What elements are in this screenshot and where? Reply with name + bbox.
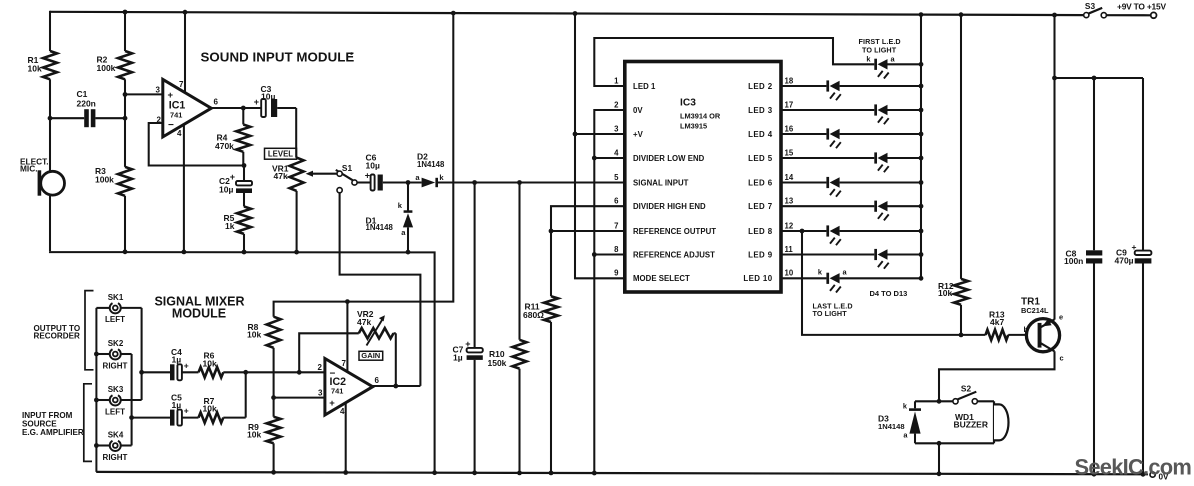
svg-text:RIGHT: RIGHT: [103, 361, 128, 370]
svg-text:BUZZER: BUZZER: [954, 419, 988, 429]
bracket output to recorder: [34, 291, 94, 370]
label LAST LED TO LIGHT: [813, 302, 853, 318]
wire IC1 pin4 ground: [182, 125, 187, 255]
svg-text:SK1: SK1: [108, 293, 124, 302]
resistor R12 10k: [938, 12, 968, 335]
svg-text:+9V TO +15V: +9V TO +15V: [1117, 1, 1166, 11]
svg-text:7: 7: [179, 80, 184, 89]
svg-text:10k: 10k: [938, 288, 952, 298]
svg-text:S1: S1: [342, 163, 353, 173]
wire S1 pole to C6: [357, 181, 371, 183]
svg-text:+: +: [365, 171, 370, 181]
wire IC3 pin7 stub: [551, 230, 625, 232]
title SIGNAL MIXER MODULE: [154, 295, 244, 321]
svg-text:+: +: [329, 398, 335, 409]
wire supply branch to C8 C9: [1055, 76, 1144, 81]
LED D4 first: [866, 54, 921, 78]
svg-text:LED 5: LED 5: [748, 154, 773, 163]
op-amp IC2 741: [318, 359, 380, 416]
wire left rail: [49, 11, 51, 251]
svg-text:LED 7: LED 7: [748, 202, 773, 211]
svg-text:RIGHT: RIGHT: [103, 453, 128, 462]
capacitor C2 10u: [219, 166, 252, 207]
resistor R5: [224, 207, 252, 255]
capacitor C4 1u: [142, 347, 199, 380]
LED D6: [781, 104, 921, 124]
svg-text:15: 15: [785, 148, 794, 157]
svg-text:5: 5: [614, 173, 619, 182]
wire IC2 output: [373, 384, 421, 389]
svg-text:E.G. AMPLIFIER: E.G. AMPLIFIER: [22, 428, 84, 437]
svg-text:REFERENCE ADJUST: REFERENCE ADJUST: [633, 250, 715, 259]
svg-text:14: 14: [785, 173, 794, 182]
title SOUND INPUT MODULE: [201, 49, 355, 64]
resistor R9 10k: [247, 417, 281, 475]
svg-text:10µ: 10µ: [261, 92, 275, 102]
op-amp IC1 741: [156, 79, 219, 138]
svg-text:6: 6: [614, 197, 619, 206]
jack SK2: [96, 339, 131, 370]
wire C6 to D2: [383, 180, 422, 185]
svg-text:SeekIC.com: SeekIC.com: [1075, 455, 1192, 480]
svg-text:LED 10: LED 10: [743, 274, 772, 283]
svg-text:470µ: 470µ: [1115, 256, 1134, 266]
label +9V TO +15V: [1117, 1, 1166, 11]
wire jack ground bus: [94, 308, 99, 472]
svg-text:6: 6: [214, 98, 219, 107]
LED D8: [781, 152, 921, 172]
label LEVEL box: [265, 148, 297, 159]
svg-text:MIC.: MIC.: [20, 164, 38, 174]
wire IC3 mode select / +V line: [573, 11, 625, 278]
svg-text:10k: 10k: [247, 430, 261, 440]
svg-text:10k: 10k: [247, 330, 261, 340]
svg-text:3: 3: [614, 124, 619, 133]
svg-text:1µ: 1µ: [172, 355, 182, 365]
svg-text:1N4148: 1N4148: [417, 160, 445, 169]
label D4 TO D13: [870, 289, 908, 298]
svg-text:3: 3: [318, 388, 323, 397]
buzzer WD1: [954, 401, 1009, 443]
switch S3: [1084, 1, 1157, 18]
resistor R11 680: [523, 206, 625, 475]
svg-text:10: 10: [785, 269, 794, 278]
svg-text:+: +: [465, 339, 470, 349]
svg-text:2: 2: [318, 363, 323, 372]
svg-text:C1: C1: [77, 89, 88, 99]
svg-text:100k: 100k: [95, 175, 114, 185]
capacitor C6 10u: [365, 153, 383, 191]
svg-text:10µ: 10µ: [366, 160, 380, 170]
svg-text:SK4: SK4: [108, 431, 124, 440]
capacitor C7 1u: [453, 183, 483, 476]
svg-text:LEVEL: LEVEL: [268, 150, 293, 159]
svg-text:+: +: [230, 172, 235, 182]
resistor R4: [215, 108, 250, 166]
svg-text:D4 TO D13: D4 TO D13: [870, 289, 908, 298]
wire buzzer bottom to 0V: [915, 441, 994, 476]
switch S2: [915, 383, 994, 404]
jack SK3: [96, 385, 141, 416]
svg-text:−: −: [168, 120, 174, 131]
svg-text:b: b: [1023, 325, 1028, 334]
wire IC2 feedback loop: [299, 333, 359, 372]
resistor R1: [28, 51, 58, 79]
wire top +V rail: [50, 12, 1084, 15]
svg-text:100n: 100n: [1064, 256, 1083, 266]
svg-text:13: 13: [785, 197, 794, 206]
svg-text:4k7: 4k7: [990, 317, 1004, 327]
svg-text:741: 741: [170, 110, 182, 119]
wire IC2 pin4 ground: [343, 403, 348, 475]
svg-text:REFERENCE OUTPUT: REFERENCE OUTPUT: [633, 227, 716, 236]
svg-text:220n: 220n: [77, 99, 96, 109]
wire SK1-SK3 left channel: [139, 308, 144, 400]
svg-text:1N4148: 1N4148: [366, 223, 394, 232]
wire LED anode rail: [919, 12, 924, 280]
node mic/C1 junction: [48, 116, 53, 121]
resistor R6 10k: [199, 351, 224, 378]
svg-text:10µ: 10µ: [219, 184, 233, 194]
svg-text:1µ: 1µ: [172, 400, 182, 410]
capacitor C1 220n: [50, 89, 125, 127]
wire +V drop to mixer supply: [274, 11, 456, 317]
svg-text:GAIN: GAIN: [361, 351, 380, 360]
svg-text:LED 6: LED 6: [748, 178, 773, 187]
svg-text:LED 1: LED 1: [633, 82, 656, 91]
svg-text:LED 2: LED 2: [748, 82, 773, 91]
svg-text:7: 7: [342, 359, 347, 368]
wire summing node to IC2 pin2: [223, 370, 325, 375]
wire LED8 trigger to R13: [800, 229, 964, 338]
wire IC1 pin7 supply: [183, 10, 188, 93]
wire TR1 collector to buzzer: [937, 351, 1055, 403]
svg-text:LED 4: LED 4: [748, 130, 773, 139]
svg-text:+: +: [254, 97, 259, 107]
wire VR1 wiper arrow: [306, 171, 337, 177]
svg-text:LED 8: LED 8: [748, 227, 773, 236]
LED D13: [781, 267, 921, 292]
switch S1: [336, 163, 357, 193]
svg-text:c: c: [1060, 354, 1064, 363]
wire bottom 0V rail: [96, 472, 1148, 474]
wire SK2-SK4 right channel: [129, 354, 134, 446]
jack SK1: [96, 293, 141, 324]
svg-text:+: +: [184, 360, 189, 370]
wire R2/R3 column: [123, 10, 128, 255]
svg-text:47k: 47k: [274, 171, 288, 181]
transistor TR1 BC214L: [1021, 297, 1064, 363]
svg-text:S2: S2: [961, 383, 972, 393]
LED D12: [781, 249, 921, 269]
resistor R7 10k: [199, 372, 246, 423]
svg-text:LEFT: LEFT: [105, 315, 125, 324]
svg-text:4: 4: [340, 407, 345, 416]
potentiometer VR2 47k: [357, 309, 396, 386]
svg-text:9: 9: [614, 269, 619, 278]
potentiometer VR1 47k: [272, 108, 304, 255]
resistor R2: [97, 51, 133, 79]
watermark SeekIC.com: [1075, 455, 1192, 480]
wire S1 throw2 to mixer output: [340, 193, 421, 386]
svg-text:4: 4: [614, 148, 619, 157]
svg-text:1N4148: 1N4148: [878, 422, 905, 431]
svg-text:1µ: 1µ: [453, 353, 463, 363]
svg-text:12: 12: [785, 221, 794, 230]
svg-text:17: 17: [785, 100, 794, 109]
svg-text:DIVIDER LOW END: DIVIDER LOW END: [633, 154, 705, 163]
wire IC3 0V line: [592, 110, 625, 475]
svg-text:BC214L: BC214L: [1021, 306, 1049, 315]
capacitor C5 1u: [132, 393, 199, 426]
diode D1 1N4148: [366, 183, 414, 255]
svg-text:MODULE: MODULE: [172, 306, 226, 320]
svg-text:LED 9: LED 9: [748, 250, 773, 259]
resistor R8 10k: [247, 317, 281, 417]
svg-text:SK2: SK2: [108, 339, 124, 348]
svg-text:S3: S3: [1085, 1, 1096, 11]
svg-text:8: 8: [614, 245, 619, 254]
svg-text:TO LIGHT: TO LIGHT: [862, 45, 897, 54]
svg-text:+: +: [1132, 242, 1137, 252]
svg-text:e: e: [1059, 313, 1063, 322]
svg-text:470k: 470k: [215, 141, 234, 151]
svg-text:TO LIGHT: TO LIGHT: [813, 309, 848, 318]
jack SK4: [96, 431, 131, 462]
svg-text:0V: 0V: [633, 106, 643, 115]
svg-text:IC3: IC3: [680, 98, 696, 109]
svg-text:MODE SELECT: MODE SELECT: [633, 274, 690, 283]
wire IC3 pin1 to first LED: [594, 38, 874, 86]
svg-text:150k: 150k: [488, 358, 507, 368]
resistor R3: [95, 166, 132, 196]
LED D5: [781, 80, 921, 100]
svg-text:741: 741: [331, 386, 343, 395]
svg-text:18: 18: [785, 76, 794, 85]
svg-text:SIGNAL INPUT: SIGNAL INPUT: [633, 178, 689, 187]
svg-text:2: 2: [614, 100, 619, 109]
svg-text:LM3915: LM3915: [680, 122, 707, 131]
bracket input from source: [22, 384, 92, 462]
svg-text:+: +: [168, 90, 174, 101]
label GAIN box: [359, 351, 383, 360]
resistor R10 150k: [488, 183, 527, 476]
svg-text:+: +: [184, 406, 189, 416]
wire R8/R9 divider to IC2 pin3: [274, 397, 325, 399]
svg-text:10k: 10k: [28, 64, 42, 74]
svg-text:7: 7: [614, 221, 618, 230]
LED D7: [781, 128, 921, 148]
svg-text:1k: 1k: [225, 221, 235, 231]
LED D10: [781, 201, 921, 221]
wire 0V return line: [50, 251, 437, 475]
diode D2 1N4148: [415, 152, 445, 188]
svg-text:10k: 10k: [203, 358, 217, 368]
wire signal line to IC3 pin5: [438, 180, 625, 185]
svg-text:680Ω: 680Ω: [523, 310, 544, 320]
svg-text:LED 3: LED 3: [748, 106, 773, 115]
svg-text:11: 11: [785, 245, 794, 254]
svg-text:LM3914 OR: LM3914 OR: [680, 112, 721, 121]
wire IC2 pin7 supply stub: [346, 302, 348, 372]
svg-text:3: 3: [156, 85, 161, 94]
svg-text:47k: 47k: [357, 317, 371, 327]
svg-text:6: 6: [375, 376, 380, 385]
electret microphone: [20, 156, 65, 195]
LED D9: [781, 177, 921, 197]
wire IC1 pin3 input: [125, 93, 163, 95]
LED D11: [781, 225, 921, 245]
svg-text:LEFT: LEFT: [105, 407, 125, 416]
diode D3 1N4148: [878, 401, 921, 443]
svg-text:100k: 100k: [97, 63, 116, 73]
wire IC1 pin6 output: [211, 106, 261, 111]
label FIRST LED TO LIGHT: [859, 37, 901, 54]
capacitor C3 10u: [254, 84, 296, 117]
capacitor C8 100n: [1064, 78, 1102, 477]
svg-text:SOUND INPUT MODULE: SOUND INPUT MODULE: [201, 49, 355, 64]
wire TR1 emitter supply: [1052, 13, 1057, 320]
svg-text:1: 1: [614, 76, 619, 85]
IC IC3 LM3914/LM3915: [614, 62, 794, 293]
svg-text:16: 16: [785, 124, 794, 133]
wire IC1 pin2 feedback loop: [149, 123, 247, 168]
capacitor C9 470u: [1115, 78, 1152, 477]
svg-text:+V: +V: [633, 130, 644, 139]
svg-text:4: 4: [177, 129, 182, 138]
svg-text:−: −: [330, 368, 336, 379]
svg-text:SK3: SK3: [108, 385, 124, 394]
resistor R13 4k7: [961, 309, 1038, 340]
svg-text:10k: 10k: [203, 404, 217, 414]
svg-text:DIVIDER HIGH END: DIVIDER HIGH END: [633, 202, 706, 211]
terminal 0V: [1150, 472, 1169, 481]
svg-text:RECORDER: RECORDER: [34, 332, 80, 341]
